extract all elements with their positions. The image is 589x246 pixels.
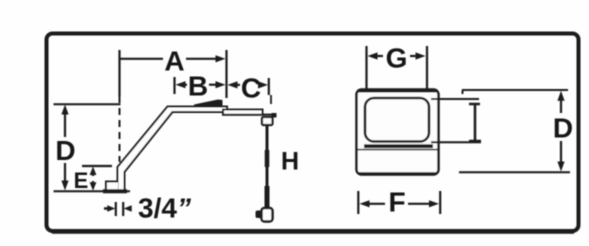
rod bottom socket: [262, 208, 273, 222]
clamp wedge on arm: [194, 100, 223, 107]
dimension C line: [228, 81, 238, 88]
dimension D-left line with arrows: [61, 105, 68, 115]
border frame: [47, 34, 579, 232]
bracket foot flange: [106, 182, 118, 191]
thick base under foot: [103, 189, 127, 193]
mirror head housing (right view): [357, 90, 439, 175]
dimension D-right bottom extension line: [459, 171, 570, 173]
arm thin extension: [262, 114, 276, 116]
dimension D-right top extension line: [462, 89, 568, 91]
svg-text:G: G: [386, 43, 408, 74]
dimension F line: [360, 200, 370, 207]
dimension E up arrow: [90, 167, 97, 176]
svg-text:D: D: [553, 113, 573, 144]
svg-text:H: H: [281, 148, 299, 176]
baseline extension line: [54, 190, 131, 192]
swivel fitting: [262, 117, 273, 125]
mirror arm bracket body (left view): [118, 107, 228, 191]
dimension E down arrow: [92, 181, 94, 185]
svg-text:F: F: [388, 187, 405, 218]
thick line under mirror: [364, 144, 433, 148]
rod sleeve joint: [265, 150, 270, 167]
dimension A/B/C shared extension line: [225, 50, 227, 98]
dimension F extension ticks: [357, 191, 359, 214]
dimension B left extension tick: [173, 77, 175, 94]
frame bottom thickening: [52, 231, 574, 234]
3/4 right arrow: [124, 205, 132, 211]
arm second bar: [223, 110, 263, 115]
dimension E top tick: [82, 165, 112, 167]
dimension A line: [120, 58, 164, 60]
I-beam dimension extension lines: [431, 98, 479, 100]
svg-text:A: A: [164, 46, 184, 77]
rod lower thick part: [265, 186, 270, 208]
mirror glass: [365, 98, 429, 142]
svg-text:D: D: [55, 135, 75, 166]
dimension G line: [368, 52, 378, 59]
svg-text:B: B: [188, 71, 208, 102]
dimension D-left top extension line: [54, 103, 121, 105]
housing seam line: [357, 149, 438, 151]
svg-text:3/4”: 3/4”: [138, 193, 191, 224]
knurled top edge: [358, 89, 437, 93]
dimension A extension line left (solid then dashed centerline): [118, 50, 120, 96]
3/4 left arrow: [104, 207, 109, 210]
dimension D-right line with arrows: [557, 91, 564, 101]
dimension C right extension tick: [268, 78, 270, 95]
svg-text:E: E: [74, 168, 89, 193]
housing bottom thick edge: [359, 172, 436, 175]
svg-text:C: C: [241, 73, 261, 104]
dimension G extension ticks: [365, 46, 367, 89]
arm black tip: [272, 113, 277, 118]
socket knob: [256, 211, 263, 219]
I-beam dimension: [474, 104, 477, 141]
dimension B line: [176, 81, 186, 88]
C tick lower extension to arm end: [270, 95, 272, 104]
3/4 dimension ticks: [115, 202, 117, 216]
mirror support rod: [266, 125, 269, 208]
